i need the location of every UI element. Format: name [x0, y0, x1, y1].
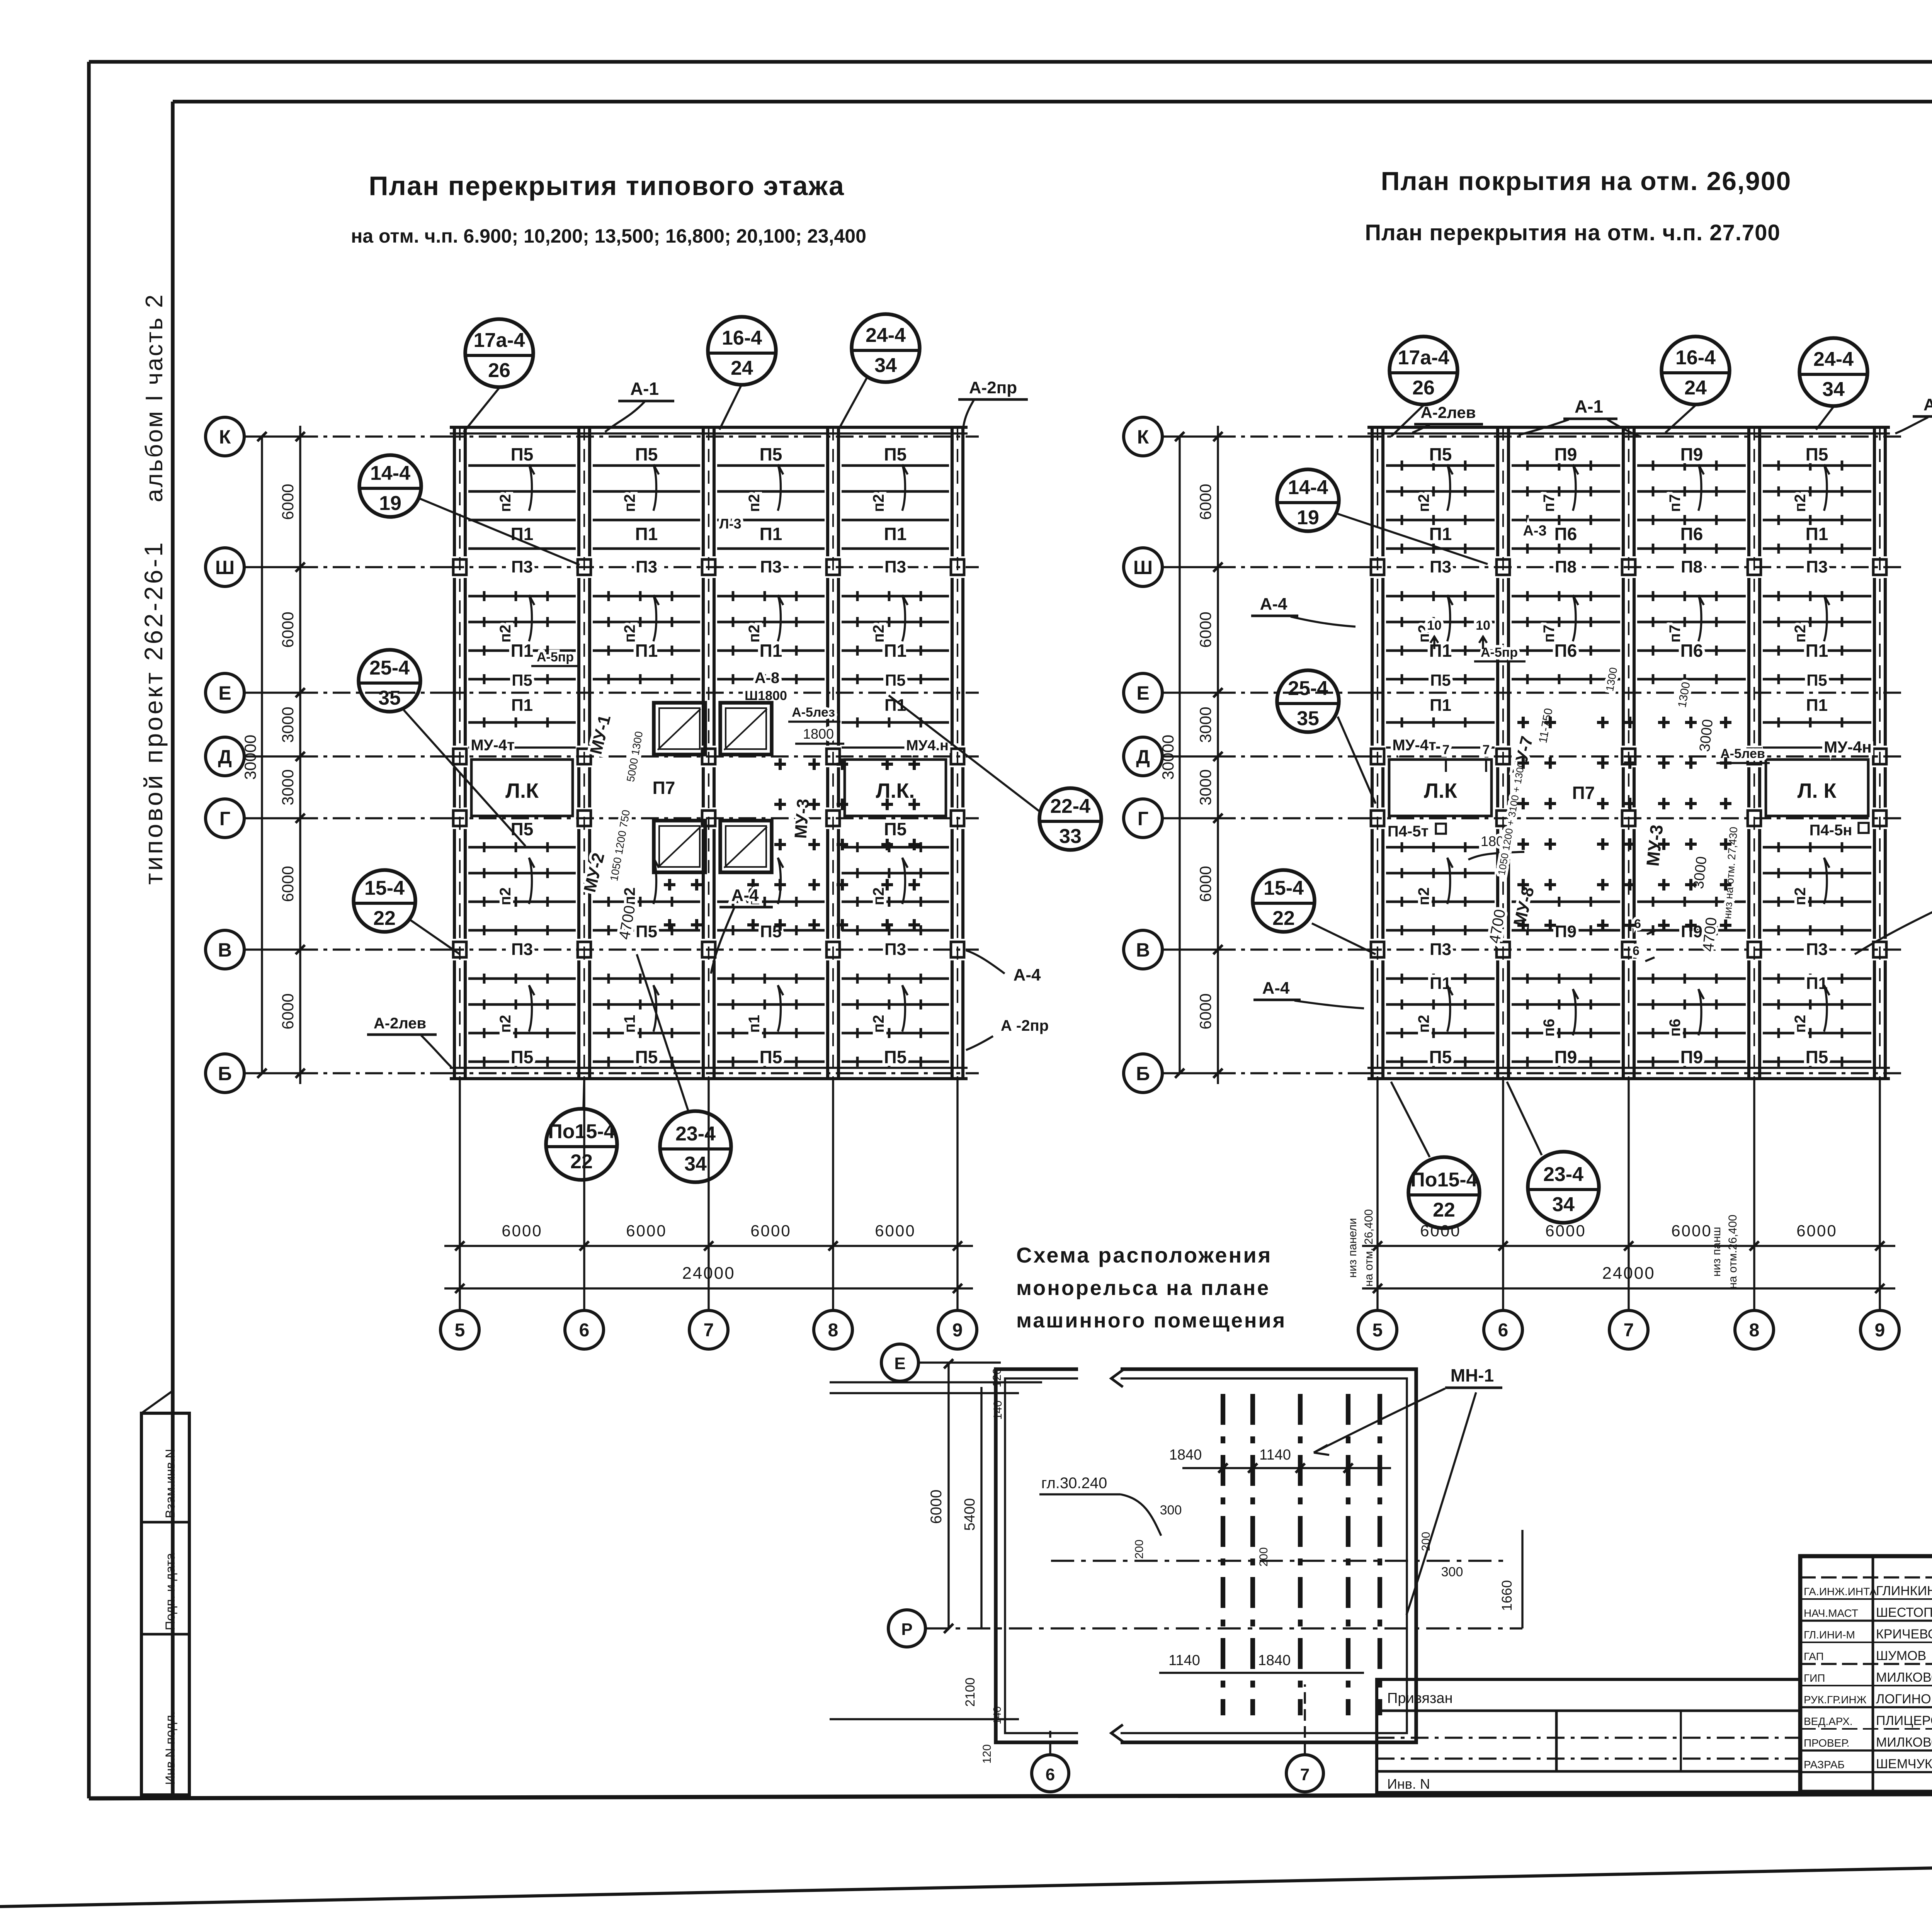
svg-text:П1: П1 [511, 641, 534, 661]
svg-text:п2: п2 [1792, 887, 1809, 905]
svg-text:П3: П3 [884, 557, 906, 576]
svg-text:В: В [218, 939, 232, 961]
svg-text:ПЛИЦЕРОВ: ПЛИЦЕРОВ [1876, 1713, 1932, 1728]
svg-text:К: К [219, 426, 231, 448]
svg-text:2100: 2100 [963, 1677, 978, 1707]
svg-text:По15-4: По15-4 [1410, 1169, 1477, 1191]
svg-text:10: 10 [1427, 618, 1442, 633]
svg-text:П3: П3 [1430, 940, 1451, 959]
svg-text:9: 9 [952, 1320, 963, 1341]
svg-text:П1: П1 [635, 524, 658, 544]
svg-text:гл.30.240: гл.30.240 [1041, 1475, 1107, 1492]
svg-text:ШУМОВ: ШУМОВ [1876, 1648, 1926, 1663]
svg-text:П5: П5 [635, 1047, 658, 1067]
svg-text:Г: Г [1138, 808, 1148, 829]
callout circle 14-4/19 [359, 455, 421, 517]
svg-text:п1: п1 [746, 1015, 763, 1033]
svg-text:200: 200 [1133, 1540, 1146, 1559]
svg-text:п2: п2 [870, 1015, 887, 1033]
left plan E-D band lines bay 1 [468, 721, 576, 724]
svg-text:П4-5н: П4-5н [1810, 822, 1852, 839]
axis line Е [244, 692, 300, 693]
svg-text:П3: П3 [760, 557, 782, 576]
left stamp strip [141, 1413, 189, 1795]
callout leaders left plan [464, 388, 499, 432]
axis circle В [206, 930, 244, 969]
svg-text:П1: П1 [1806, 696, 1828, 715]
svg-text:п2: п2 [497, 887, 514, 905]
svg-text:П5: П5 [512, 671, 532, 689]
left plan stair box Л.К [471, 760, 573, 816]
svg-text:П3: П3 [884, 940, 906, 959]
svg-text:6000: 6000 [279, 866, 297, 902]
svg-text:24: 24 [1684, 377, 1707, 399]
callout circle 15-4/22 [1253, 870, 1315, 932]
svg-text:П5: П5 [1806, 1047, 1828, 1067]
svg-text:6000: 6000 [279, 993, 297, 1029]
axis line Д [1162, 755, 1218, 757]
column axis leader 7 [1628, 1079, 1629, 1310]
svg-text:П5: П5 [884, 444, 907, 464]
svg-text:МИЛКОВСКИЙ: МИЛКОВСКИЙ [1876, 1735, 1932, 1750]
svg-text:Подп. и дата: Подп. и дата [163, 1553, 178, 1630]
svg-text:П6: П6 [1680, 641, 1703, 661]
svg-text:120: 120 [981, 1744, 993, 1764]
svg-text:5: 5 [455, 1320, 465, 1341]
svg-text:1140: 1140 [1168, 1652, 1200, 1669]
svg-text:30000: 30000 [241, 735, 259, 780]
axis circle 8 [814, 1310, 852, 1349]
axis circle Е [206, 673, 244, 712]
left plan stair box Л.К. [845, 760, 946, 816]
svg-text:25-4: 25-4 [1288, 677, 1328, 700]
svg-text:п7: п7 [1667, 494, 1684, 512]
svg-text:6000: 6000 [502, 1222, 542, 1240]
callout leaders right plan [1391, 405, 1423, 437]
svg-text:16-4: 16-4 [722, 327, 762, 349]
column axis leader 8 [1753, 1079, 1755, 1310]
axis line Г [244, 817, 300, 819]
svg-text:П1: П1 [1806, 524, 1828, 544]
column axis leader 9 [1879, 1079, 1881, 1310]
svg-text:10: 10 [1476, 618, 1490, 633]
svg-text:6000: 6000 [1796, 1222, 1837, 1240]
svg-text:6: 6 [1633, 944, 1639, 958]
right plan slab lines bay 2 [1512, 464, 1620, 467]
svg-text:А-2пр: А-2пр [1923, 395, 1932, 414]
svg-text:П5: П5 [1806, 671, 1827, 689]
right plan slab lines bay 4 [1763, 464, 1871, 467]
axis circle В [1124, 930, 1162, 969]
axis line Ш [244, 566, 300, 568]
bottom bay dimension line [444, 1245, 973, 1247]
right plan E-D band lines bay 4 [1763, 721, 1871, 724]
svg-text:п7: п7 [1667, 625, 1684, 642]
svg-text:П8: П8 [1681, 557, 1702, 576]
svg-text:7: 7 [1300, 1765, 1310, 1784]
svg-text:п1: п1 [621, 1015, 638, 1033]
axis circle 7 [1609, 1310, 1648, 1349]
svg-text:300: 300 [1160, 1503, 1182, 1518]
svg-text:17а-4: 17а-4 [1398, 347, 1449, 369]
svg-text:альбом I часть 2: альбом I часть 2 [141, 293, 168, 502]
title block signature rows [1800, 1576, 1932, 1578]
svg-text:Е: Е [218, 682, 231, 704]
svg-text:Ш: Ш [1133, 557, 1153, 578]
svg-text:14-4: 14-4 [1288, 476, 1328, 499]
svg-text:34: 34 [1822, 378, 1845, 401]
svg-text:В: В [1136, 939, 1150, 961]
svg-text:Б: Б [218, 1063, 232, 1084]
dimension line 30000 [1179, 437, 1180, 1073]
svg-text:п2: п2 [621, 625, 638, 642]
svg-text:Привязан: Привязан [1387, 1690, 1453, 1706]
axis circle 5 [1358, 1310, 1397, 1349]
svg-text:К: К [1137, 426, 1149, 448]
scheme dim 5400 [980, 1387, 982, 1628]
right plan outline [1367, 426, 1890, 429]
svg-text:35: 35 [1297, 707, 1319, 730]
svg-text:План перекрытия на отм. ч.п.: План перекрытия на отм. ч.п. 27.700 [1365, 220, 1780, 245]
axis line Б [244, 1072, 300, 1074]
title block frame [1800, 1556, 1932, 1792]
svg-text:П1: П1 [884, 641, 907, 661]
svg-text:Л.К: Л.К [505, 779, 539, 802]
svg-text:П6: П6 [1680, 524, 1703, 544]
svg-text:П3: П3 [1430, 557, 1451, 576]
callout circle 24-4/34 [852, 314, 920, 382]
axis line В [244, 948, 300, 950]
svg-text:П1: П1 [1429, 641, 1452, 661]
svg-text:6000: 6000 [1196, 484, 1214, 520]
svg-text:А-4: А-4 [731, 886, 759, 905]
svg-text:П1: П1 [760, 641, 782, 661]
svg-text:А-3: А-3 [1523, 523, 1546, 539]
svg-text:п2: п2 [621, 494, 638, 512]
svg-text:Е: Е [894, 1354, 905, 1373]
left plan column walls [453, 427, 456, 1079]
svg-text:П1: П1 [760, 524, 782, 544]
callout circle 15-4/22 [354, 870, 415, 932]
svg-text:7: 7 [1483, 743, 1490, 757]
axis circle 5 [440, 1310, 479, 1349]
svg-text:А-1: А-1 [630, 379, 659, 399]
svg-text:А-8: А-8 [755, 670, 779, 687]
svg-text:А-4: А-4 [1262, 979, 1290, 998]
svg-text:Е: Е [1136, 682, 1149, 704]
svg-text:П5: П5 [635, 444, 658, 464]
svg-text:п2: п2 [1792, 625, 1809, 642]
svg-text:14-4: 14-4 [370, 462, 410, 484]
axis circle Ш [206, 548, 244, 586]
svg-text:П5: П5 [1806, 444, 1828, 464]
svg-text:22: 22 [1433, 1199, 1455, 1221]
svg-text:П5: П5 [511, 1047, 534, 1067]
svg-text:23-4: 23-4 [675, 1123, 716, 1145]
callout circle 25-4/35 [359, 650, 420, 712]
svg-text:п2: п2 [746, 625, 763, 642]
svg-text:п2: п2 [1792, 1015, 1809, 1033]
svg-text:3000: 3000 [279, 769, 297, 805]
svg-text:Л.К: Л.К [1424, 779, 1458, 802]
svg-text:МИЛКОВСКИЙ: МИЛКОВСКИЙ [1876, 1670, 1932, 1685]
svg-text:7: 7 [704, 1320, 714, 1341]
svg-text:9: 9 [1875, 1320, 1885, 1341]
svg-text:140: 140 [991, 1706, 1003, 1725]
svg-text:низ панш: низ панш [1710, 1227, 1723, 1277]
svg-text:п2: п2 [1415, 887, 1432, 905]
svg-text:МН-1: МН-1 [1451, 1365, 1494, 1385]
left plan openings [654, 703, 705, 755]
inner frame left [171, 102, 175, 1797]
callout circle 23-4/34 [660, 1111, 731, 1182]
column axis leader 6 [583, 1079, 585, 1310]
monorail top dim 1840 1140 [1182, 1467, 1391, 1469]
right plan E-D band lines bay 1 [1386, 721, 1495, 724]
svg-text:П1: П1 [1430, 696, 1451, 715]
callout circle 16-4/24 [708, 317, 776, 385]
svg-text:П6: П6 [1554, 641, 1577, 661]
svg-text:П5: П5 [1429, 1047, 1452, 1067]
left plan slab lines bay 2 [593, 464, 700, 467]
svg-text:8: 8 [828, 1320, 838, 1341]
left plan column axis dashes [459, 427, 461, 1079]
axis circle 7 [689, 1310, 728, 1349]
svg-text:Г: Г [219, 808, 230, 829]
svg-text:7: 7 [1442, 743, 1450, 757]
monorail bottom dim 1140 1840 [1159, 1672, 1364, 1674]
svg-text:П1: П1 [1429, 524, 1452, 544]
axis circle Г [206, 799, 244, 838]
привязан table [1377, 1679, 1800, 1793]
left plan outline [450, 426, 968, 429]
svg-text:машинного помещения: машинного помещения [1016, 1309, 1286, 1332]
column axis leader 8 [832, 1079, 834, 1310]
svg-text:А-5лез: А-5лез [792, 705, 835, 720]
svg-text:П9: П9 [1554, 1047, 1577, 1067]
svg-text:МУ-4н: МУ-4н [1824, 738, 1872, 756]
svg-text:33: 33 [1059, 825, 1082, 848]
axis circle Е [1124, 673, 1162, 712]
right plan plus marks [1517, 717, 1731, 931]
right plan stair box Л. К [1766, 760, 1868, 816]
svg-text:монорельса на плане: монорельса на плане [1016, 1276, 1270, 1300]
svg-text:7: 7 [1624, 1320, 1634, 1341]
svg-text:П5: П5 [885, 671, 906, 689]
svg-text:П1: П1 [1806, 641, 1828, 661]
sheet outer frame [89, 60, 1932, 64]
svg-text:П5: П5 [636, 922, 657, 941]
svg-text:А-4: А-4 [1260, 595, 1287, 614]
svg-text:П1: П1 [511, 696, 533, 715]
svg-text:П3: П3 [1806, 940, 1828, 959]
axis circle 6 [1484, 1310, 1522, 1349]
svg-text:Д: Д [1136, 746, 1150, 768]
svg-text:П5: П5 [884, 819, 907, 839]
svg-text:ГЛИНКИН: ГЛИНКИН [1876, 1584, 1932, 1598]
svg-text:План перекрытия типового эт: План перекрытия типового этажа [369, 171, 845, 201]
inner frame top [173, 100, 1932, 104]
svg-text:П9: П9 [1554, 444, 1577, 464]
svg-text:6000: 6000 [279, 484, 297, 520]
svg-text:6: 6 [1498, 1320, 1509, 1341]
column axis leader 6 [1502, 1079, 1504, 1310]
svg-text:6000: 6000 [279, 612, 297, 647]
bottom total dimension line [1362, 1287, 1895, 1289]
svg-text:19: 19 [379, 492, 401, 515]
svg-text:22-4: 22-4 [1050, 795, 1090, 817]
svg-text:МУ4.н: МУ4.н [906, 738, 949, 754]
axis line Е [1162, 692, 1218, 693]
left plan plus marks [664, 758, 920, 931]
svg-text:6000: 6000 [928, 1490, 945, 1524]
svg-text:КРИЧЕВСКИЙ: КРИЧЕВСКИЙ [1876, 1627, 1932, 1642]
axis line К [244, 435, 300, 437]
svg-text:5400: 5400 [962, 1498, 978, 1531]
axis line Г [1162, 817, 1218, 819]
svg-text:п2: п2 [621, 887, 638, 905]
callout circle По15-4/22 [546, 1109, 617, 1180]
svg-text:типовой проект 262-26-1: типовой проект 262-26-1 [139, 540, 168, 885]
svg-text:П6: П6 [1554, 524, 1577, 544]
svg-text:Р: Р [901, 1620, 912, 1639]
svg-text:Б: Б [1136, 1063, 1150, 1084]
svg-text:П5: П5 [884, 1047, 907, 1067]
svg-text:П5: П5 [511, 444, 534, 464]
svg-text:П5: П5 [1429, 444, 1452, 464]
column axis leader 5 [1376, 1079, 1378, 1310]
svg-text:24-4: 24-4 [866, 324, 906, 347]
svg-text:6: 6 [1046, 1765, 1055, 1784]
svg-text:ШЕСТОПЛЛОВ: ШЕСТОПЛЛОВ [1876, 1605, 1932, 1620]
svg-text:П3: П3 [511, 940, 533, 959]
svg-text:26: 26 [1412, 377, 1435, 399]
svg-text:200: 200 [1257, 1547, 1270, 1567]
svg-text:6000: 6000 [1196, 993, 1214, 1029]
svg-text:6000: 6000 [1671, 1222, 1712, 1240]
svg-text:3000: 3000 [279, 707, 297, 743]
axis circle К [1124, 417, 1162, 456]
svg-text:РУК.ГР.ИНЖ: РУК.ГР.ИНЖ [1804, 1694, 1867, 1706]
column axis leader 5 [459, 1079, 461, 1310]
monorail lines МН-1 [1221, 1394, 1225, 1715]
svg-text:3000: 3000 [1697, 719, 1716, 753]
svg-text:п7: п7 [1541, 494, 1558, 512]
svg-text:МУ-4т: МУ-4т [1392, 737, 1436, 754]
svg-text:Л-3: Л-3 [719, 516, 741, 532]
svg-text:А-4: А-4 [1014, 965, 1041, 984]
svg-text:23-4: 23-4 [1543, 1163, 1583, 1186]
svg-text:п2: п2 [497, 625, 514, 642]
svg-text:П7: П7 [653, 778, 675, 798]
svg-text:34: 34 [874, 354, 897, 377]
axis line Р scheme [925, 1627, 1522, 1629]
svg-text:1140: 1140 [1259, 1447, 1291, 1463]
right plan slab lines bay 1 [1386, 464, 1495, 467]
svg-text:ГАП: ГАП [1804, 1650, 1824, 1662]
svg-text:п2: п2 [1415, 1015, 1432, 1033]
callout circle 16-4/24 [1662, 336, 1730, 404]
callout circle 23-4/34 [1528, 1152, 1599, 1223]
svg-text:34: 34 [1552, 1193, 1575, 1216]
left plan slab lines bay 3 [717, 464, 825, 467]
svg-text:Д: Д [218, 746, 232, 768]
axis line Б [1162, 1072, 1218, 1074]
axis circle 9 [1861, 1310, 1899, 1349]
axis line В [1162, 948, 1218, 950]
right plan slab lines bay 3 [1637, 464, 1746, 467]
svg-text:П5: П5 [760, 444, 782, 464]
column axis leader 7 [707, 1079, 709, 1310]
axis circle Б [206, 1054, 244, 1093]
svg-text:Инв. N: Инв. N [1387, 1776, 1430, 1792]
axis line Д [244, 755, 300, 757]
svg-text:ГЛ.ИНИ-М: ГЛ.ИНИ-М [1804, 1629, 1855, 1641]
axis line К [1162, 435, 1218, 437]
svg-text:П1: П1 [884, 524, 907, 544]
svg-text:П5: П5 [760, 1047, 782, 1067]
svg-text:24-4: 24-4 [1813, 348, 1854, 370]
svg-text:П8: П8 [1555, 557, 1577, 576]
axis circle 9 [938, 1310, 977, 1349]
callout circle 14-4/19 [1277, 469, 1339, 531]
svg-text:26: 26 [488, 359, 510, 382]
callout circle 17а-4/26 [1389, 336, 1458, 404]
svg-text:1840: 1840 [1258, 1652, 1291, 1669]
svg-text:А -2пр: А -2пр [1001, 1017, 1049, 1034]
svg-text:п6: п6 [1541, 1019, 1558, 1037]
svg-text:ГИП: ГИП [1804, 1672, 1825, 1684]
svg-text:низ панели: низ панели [1346, 1218, 1359, 1278]
dimension line 30000 [261, 437, 263, 1073]
svg-text:ЛОГИНОВА: ЛОГИНОВА [1876, 1692, 1932, 1706]
svg-text:5: 5 [1372, 1320, 1383, 1341]
callout circle 24-4/34 [1799, 338, 1867, 406]
svg-text:П3: П3 [511, 557, 533, 576]
svg-text:РАЗРАБ: РАЗРАБ [1804, 1759, 1845, 1771]
axis circle К [206, 417, 244, 456]
left plan slab lines bay 4 [842, 464, 949, 467]
svg-text:8: 8 [1749, 1320, 1760, 1341]
svg-text:15-4: 15-4 [364, 877, 405, 899]
svg-text:Л. К: Л. К [1798, 779, 1837, 802]
svg-text:Ш: Ш [215, 557, 235, 578]
svg-text:19: 19 [1297, 506, 1319, 529]
svg-text:1660: 1660 [1499, 1580, 1515, 1611]
svg-text:п7: п7 [1541, 625, 1558, 642]
callout circle 17а-4/26 [465, 319, 533, 387]
svg-text:3000: 3000 [1196, 769, 1214, 805]
svg-text:А-2лев: А-2лев [374, 1015, 426, 1032]
svg-text:п6: п6 [1667, 1019, 1684, 1037]
svg-text:на отм. 26,400: на отм. 26,400 [1362, 1209, 1375, 1286]
axis circle Ш [1124, 548, 1162, 586]
machine room left wall extension lines [830, 1381, 1042, 1383]
scheme center dash line [1051, 1560, 1507, 1562]
svg-text:25-4: 25-4 [369, 657, 410, 679]
axis circle Г [1124, 799, 1162, 838]
svg-text:п2: п2 [746, 494, 763, 512]
svg-text:1840: 1840 [1169, 1447, 1202, 1463]
svg-text:А-1: А-1 [1575, 396, 1603, 416]
svg-text:ПРОВЕР.: ПРОВЕР. [1804, 1737, 1849, 1749]
svg-text:п2: п2 [497, 1015, 514, 1033]
left plan slab lines bay 1 [468, 464, 576, 467]
svg-text:По15-4: По15-4 [548, 1120, 615, 1143]
svg-text:на отм. ч.п. 6.900; 10,200; 13: на отм. ч.п. 6.900; 10,200; 13,500; 16,8… [351, 225, 866, 247]
svg-text:6000: 6000 [1196, 612, 1214, 647]
svg-text:16-4: 16-4 [1675, 347, 1716, 369]
